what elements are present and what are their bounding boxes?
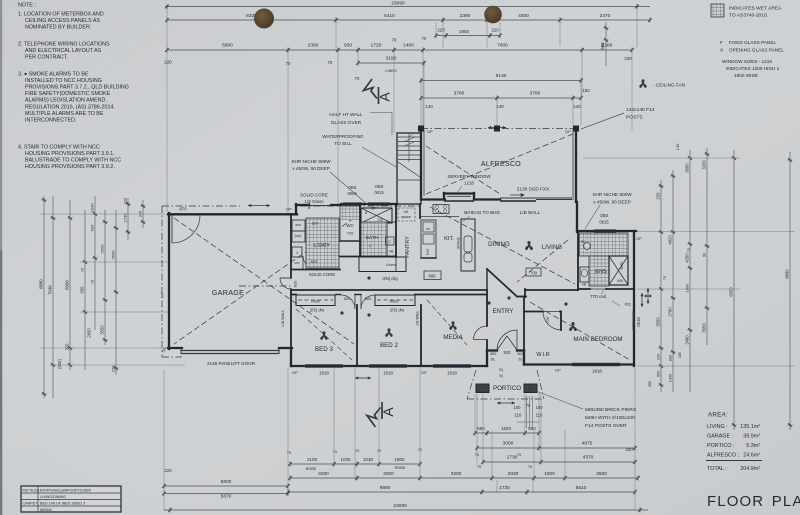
extension lines top: [166, 8, 168, 212]
svg-text:SHR: SHR: [620, 262, 624, 270]
svg-text:1800 WIDE: 1800 WIDE: [734, 73, 758, 78]
svg-text:39.9m²: 39.9m²: [743, 434, 760, 440]
bed diag dashes: [296, 309, 352, 360]
svg-text:220: 220: [625, 447, 633, 452]
svg-text:3500: 3500: [596, 471, 607, 477]
dim row 8320/5410/2390/4500/2470: [167, 19, 650, 21]
svg-text:24.6m²: 24.6m²: [743, 453, 760, 459]
svg-text:MEDIA: MEDIA: [40, 508, 52, 512]
svg-text:870: 870: [179, 207, 187, 212]
vanity: [387, 222, 396, 256]
svg-text:3550: 3550: [702, 323, 707, 333]
FG window: [612, 301, 620, 306]
svg-text:PROVISIONS PART 3.7.2., QLD BU: PROVISIONS PART 3.7.2., QLD BUILDING: [25, 85, 129, 91]
svg-text:CEILING ACCESS PANELS AS: CEILING ACCESS PANELS AS: [25, 18, 100, 24]
svg-text:6500: 6500: [65, 280, 70, 290]
svg-text:9980: 9980: [380, 485, 391, 491]
laundry-garage door 820: [290, 278, 292, 289]
svg-text:space: space: [401, 215, 411, 219]
svg-text:2/S| drs: 2/S| drs: [390, 308, 404, 313]
svg-text:4370: 4370: [583, 455, 594, 461]
svg-text:G: G: [388, 240, 391, 244]
svg-text:23090: 23090: [391, 0, 405, 6]
dim row 3200/3000/3200/2030/1500/3500: [290, 477, 638, 479]
svg-text:220: 220: [65, 343, 70, 351]
north wall laundry/wc/bath: [295, 204, 297, 214]
svg-text:DINING: DINING: [488, 241, 510, 248]
kitchen bench column: [421, 220, 436, 258]
svg-text:1900: 1900: [394, 457, 405, 462]
bed3/bed2 divider: [356, 305, 358, 366]
svg-text:350: 350: [648, 381, 652, 387]
svg-text:GARAGE: GARAGE: [212, 288, 245, 297]
svg-text:820: 820: [312, 221, 319, 226]
svg-text:ref: ref: [404, 210, 408, 214]
svg-text:2. TELEPHONE WIRING LOCATIONS: 2. TELEPHONE WIRING LOCATIONS: [18, 42, 110, 48]
svg-text:OBS: OBS: [600, 213, 609, 218]
svg-text:ENTRY: ENTRY: [493, 308, 514, 315]
left dimension column: [43, 196, 45, 398]
svg-text:3200: 3200: [702, 160, 707, 170]
svg-text:180: 180: [678, 352, 682, 358]
svg-text:WC: WC: [346, 223, 354, 228]
svg-text:MAIN BEDROOM: MAIN BEDROOM: [573, 336, 622, 343]
svg-text:8880: 8880: [785, 269, 790, 279]
svg-text:7040: 7040: [48, 285, 53, 295]
svg-text:3780: 3780: [454, 91, 465, 97]
svg-text:600: 600: [429, 274, 437, 279]
svg-text:DP: DP: [292, 370, 298, 375]
svg-text:CARPET: CARPET: [23, 502, 39, 506]
svg-text:OBS: OBS: [348, 185, 357, 190]
svg-text:70: 70: [333, 449, 338, 454]
svg-text:ALFRESCO :: ALFRESCO :: [707, 453, 739, 459]
svg-text:DP: DP: [286, 207, 292, 212]
svg-text:2950: 2950: [87, 328, 92, 338]
svg-text:830: 830: [668, 354, 673, 361]
svg-text:ROBE: ROBE: [306, 467, 317, 471]
svg-text:820: 820: [344, 296, 351, 301]
svg-text:70: 70: [286, 61, 291, 66]
svg-text:3000: 3000: [383, 471, 394, 477]
dim 3190 linen: [358, 62, 424, 64]
svg-text:L: L: [369, 244, 371, 248]
svg-text:2560: 2560: [100, 244, 105, 254]
svg-text:- CEILING FAN: - CEILING FAN: [653, 83, 685, 88]
bed2/media divider: [420, 305, 422, 366]
svg-text:1818: 1818: [383, 371, 393, 376]
svg-text:L/B WALL: L/B WALL: [281, 310, 285, 327]
svg-text:820: 820: [293, 280, 298, 287]
svg-text:2480: 2480: [685, 335, 690, 345]
svg-text:820: 820: [311, 259, 318, 264]
svg-text:5510: 5510: [576, 485, 587, 491]
svg-text:FLOOR PLAN: FLOOR PLAN: [707, 493, 800, 510]
bath floor hatch: [361, 222, 387, 256]
svg-text:DW: DW: [426, 248, 430, 254]
svg-text:BED 1/W.I.R./BED 2/BED 3: BED 1/W.I.R./BED 2/BED 3: [40, 502, 85, 506]
svg-text:70: 70: [418, 447, 423, 452]
kitchen bench north + cooktop: [421, 216, 459, 218]
garage walls: [168, 213, 170, 349]
svg-text:1. LOCATION OF METERBOX AND: 1. LOCATION OF METERBOX AND: [18, 12, 104, 18]
svg-text:3550: 3550: [656, 317, 661, 327]
svg-text:POSTS: POSTS: [626, 115, 643, 121]
svg-text:1950: 1950: [459, 29, 470, 34]
svg-text:70: 70: [475, 452, 480, 457]
svg-text:Robe: Robe: [390, 300, 399, 304]
svg-text:GLASS OVER: GLASS OVER: [331, 120, 362, 125]
legend wet area symbol: [711, 4, 724, 17]
svg-text:3000: 3000: [503, 441, 514, 447]
living south wall: [517, 296, 526, 298]
svg-text:KM TILES: KM TILES: [23, 489, 40, 493]
svg-text:3060: 3060: [685, 163, 690, 173]
entry front wall + door: [486, 350, 488, 366]
alfresco posts: [418, 126, 424, 132]
svg-text:5.3m²: 5.3m²: [746, 443, 760, 449]
svg-text:140: 140: [425, 104, 433, 109]
svg-text:70: 70: [355, 448, 360, 453]
svg-text:PORTICO :: PORTICO :: [707, 443, 734, 449]
svg-text:HALF HT WALL: HALF HT WALL: [329, 112, 363, 117]
svg-text:220: 220: [491, 28, 499, 33]
svg-text:2030: 2030: [508, 471, 519, 477]
svg-text:900: 900: [617, 279, 623, 283]
svg-text:TO SILL: TO SILL: [334, 141, 352, 146]
dim row 5800/2380/930/1720/1400/7600/2380: [167, 49, 632, 51]
svg-text:2/S| drs: 2/S| drs: [310, 308, 324, 313]
ens shower: [609, 256, 628, 285]
svg-text:LIVING/DINING: LIVING/DINING: [40, 495, 66, 499]
svg-text:3190: 3190: [386, 56, 397, 62]
svg-text:SHR NICHE 900W: SHR NICHE 900W: [592, 192, 632, 197]
bed3 robe: [296, 295, 335, 306]
svg-text:5800: 5800: [221, 479, 232, 485]
svg-text:A: A: [380, 407, 396, 417]
svg-text:820: 820: [365, 296, 372, 301]
interior: garage east wall: [290, 214, 292, 278]
svg-text:NOMINATED BY BUILDER.: NOMINATED BY BUILDER.: [25, 25, 91, 31]
svg-text:140x140 F14: 140x140 F14: [626, 107, 655, 113]
svg-text:220: 220: [164, 468, 172, 473]
svg-text:3200: 3200: [318, 471, 329, 477]
svg-text:3780: 3780: [530, 91, 541, 97]
svg-text:Linen: Linen: [386, 262, 396, 267]
svg-text:PORTICO: PORTICO: [493, 385, 521, 392]
svg-text:0615: 0615: [599, 220, 609, 225]
svg-text:2560: 2560: [111, 250, 116, 260]
svg-text:ENTRY/HALLWAYS/KITCHEN/: ENTRY/HALLWAYS/KITCHEN/: [40, 489, 92, 493]
laundry wet floor hatch: [306, 218, 339, 268]
svg-text:AREA:: AREA:: [708, 412, 728, 419]
svg-text:1820: 1820: [501, 426, 512, 431]
magnet circle left: [254, 9, 274, 29]
svg-text:NOTE :: NOTE :: [18, 3, 36, 9]
sliding door 2138 SGD: [500, 197, 572, 199]
wc: [341, 206, 359, 220]
svg-text:4820: 4820: [668, 235, 673, 245]
svg-text:70: 70: [392, 38, 397, 43]
svg-text:3550: 3550: [100, 325, 105, 335]
legend ceiling fan: [640, 80, 646, 87]
svg-text:B|: B|: [499, 374, 502, 378]
svg-text:L/B WALL: L/B WALL: [416, 310, 420, 325]
svg-text:70: 70: [477, 464, 482, 469]
svg-text:FG: FG: [625, 302, 631, 307]
600 box: [424, 271, 441, 280]
700 box label: [526, 268, 541, 276]
east outer wall: [633, 231, 635, 366]
svg-text:930: 930: [344, 43, 352, 49]
svg-text:940H WITH 2/100x100: 940H WITH 2/100x100: [585, 415, 635, 421]
svg-text:BED 3: BED 3: [315, 346, 333, 353]
wir walls: [523, 297, 525, 364]
section marker A top: [364, 79, 379, 104]
right wing ens walls: [576, 202, 578, 232]
svg-text:1720: 1720: [371, 43, 382, 49]
svg-text:950: 950: [80, 286, 85, 294]
svg-text:70: 70: [287, 450, 292, 455]
svg-text:150: 150: [582, 88, 590, 93]
svg-text:B/PANE: B/PANE: [457, 237, 461, 248]
svg-text:135.1m²: 135.1m²: [740, 424, 760, 430]
magnet circle right: [484, 6, 502, 24]
svg-text:2470: 2470: [600, 13, 611, 19]
bed3 door 820: [335, 294, 341, 296]
svg-text:5870: 5870: [221, 494, 232, 500]
svg-text:SERVERY WINDOW: SERVERY WINDOW: [447, 174, 491, 179]
svg-text:(tub): (tub): [295, 234, 302, 238]
laundry south wall + solid core: [291, 269, 340, 271]
svg-text:500: 500: [90, 224, 95, 231]
svg-text:1500: 1500: [544, 471, 555, 477]
south wall main bedroom/wir: [524, 363, 634, 365]
svg-text:770 csd: 770 csd: [590, 294, 607, 299]
svg-text:FIRE SAFETY(DOMESTIC SMOKE: FIRE SAFETY(DOMESTIC SMOKE: [25, 91, 111, 97]
ens basin: [584, 243, 591, 250]
svg-text:ov: ov: [426, 227, 430, 231]
svg-text:590x350 BRICK PIERS: 590x350 BRICK PIERS: [585, 407, 637, 413]
svg-text:BATH: BATH: [366, 235, 379, 241]
svg-text:SL: SL: [518, 357, 524, 362]
svg-text:B|: B|: [499, 368, 502, 372]
svg-text:2148 PANELIFT DOOR: 2148 PANELIFT DOOR: [207, 361, 256, 366]
portico: [476, 384, 489, 393]
bed2 robe: [375, 295, 415, 306]
dim row 5800: [164, 485, 288, 487]
svg-text:x 450W, 90 DEEP: x 450W, 90 DEEP: [593, 200, 631, 205]
svg-text:70: 70: [377, 448, 382, 453]
svg-text:0618: 0618: [636, 317, 641, 327]
hall south wall to entry: [291, 289, 487, 291]
svg-text:7600: 7600: [497, 43, 508, 49]
svg-text:PANTRY: PANTRY: [405, 236, 411, 258]
svg-text:REGULATION 2016, (AS) 3786-201: REGULATION 2016, (AS) 3786-2014.: [25, 104, 115, 110]
svg-text:4. STAIR TO COMPLY WITH NCC: 4. STAIR TO COMPLY WITH NCC: [18, 145, 100, 151]
bed2 door 820: [355, 294, 361, 296]
dim row 23090 bottom: [164, 509, 648, 511]
svg-text:HOUSING PROVISIONS PART 3.9.2.: HOUSING PROVISIONS PART 3.9.2.: [25, 164, 115, 170]
svg-text:8880: 8880: [39, 279, 44, 289]
svg-text:ALARMS) LEGISLATION AMEND.: ALARMS) LEGISLATION AMEND.: [25, 98, 107, 104]
svg-text:SOLID CORE: SOLID CORE: [309, 272, 336, 277]
svg-text:720: 720: [347, 231, 354, 236]
dim row 8130: [421, 80, 581, 82]
svg-text:5410: 5410: [384, 13, 395, 19]
bedroom windows 1818 x3: [305, 364, 343, 366]
svg-text:1818: 1818: [319, 371, 329, 376]
dim right-top 580/240: [605, 22, 607, 66]
svg-text:TO AS3740-2010.: TO AS3740-2010.: [729, 13, 768, 19]
svg-text:4875: 4875: [582, 441, 593, 447]
svg-text:220: 220: [656, 192, 661, 200]
svg-text:70: 70: [328, 60, 333, 65]
svg-text:F: F: [720, 40, 723, 45]
svg-text:x 450W, 90 DEEP: x 450W, 90 DEEP: [292, 166, 330, 171]
svg-text:WATERPROOFING: WATERPROOFING: [322, 134, 364, 139]
svg-text:L/B WALL: L/B WALL: [520, 210, 541, 215]
svg-text:1218: 1218: [464, 181, 474, 186]
garage panelift door: [181, 350, 279, 352]
svg-text:720: 720: [545, 316, 550, 323]
svg-text:(600): (600): [57, 359, 62, 369]
svg-text:2100: 2100: [307, 457, 318, 462]
svg-text:70: 70: [355, 76, 360, 81]
svg-text:W.I.R: W.I.R: [536, 352, 549, 358]
svg-text:1400: 1400: [403, 43, 414, 49]
svg-text:8130: 8130: [496, 73, 507, 79]
robe wall: [291, 294, 296, 296]
media door: [474, 326, 488, 340]
svg-text:920: 920: [504, 350, 512, 355]
dim row 5870/9980/1730/5510: [164, 493, 288, 495]
svg-text:110: 110: [515, 413, 522, 418]
svg-text:ROBE: ROBE: [395, 466, 406, 470]
svg-text:INSTALLED TO NCC HOUSING: INSTALLED TO NCC HOUSING: [25, 78, 102, 84]
svg-text:2390: 2390: [460, 13, 471, 19]
bath south wall: [340, 256, 396, 258]
svg-text:204.9m²: 204.9m²: [740, 466, 760, 472]
svg-text:0615: 0615: [374, 190, 384, 195]
svg-text:2380: 2380: [308, 43, 319, 49]
svg-text:3/S| drg: 3/S| drg: [382, 276, 398, 281]
bottom extension lines: [163, 370, 165, 511]
svg-text:DP: DP: [421, 370, 427, 375]
laundry fixtures wm/tub: [292, 220, 305, 231]
svg-text:1730: 1730: [123, 213, 128, 223]
svg-text:2138 SGD FXX: 2138 SGD FXX: [517, 187, 550, 192]
svg-text:ALFRESCO: ALFRESCO: [481, 161, 521, 168]
eave double arrow top: [248, 205, 270, 207]
svg-text:240: 240: [624, 56, 632, 61]
svg-text:MULTIPLE ALARMS ARE TO BE: MULTIPLE ALARMS ARE TO BE: [25, 111, 104, 117]
svg-text:140: 140: [675, 143, 680, 150]
svg-text:SOLID CORE: SOLID CORE: [300, 193, 328, 198]
alfresco double arrow: [488, 127, 506, 129]
left extension lines: [40, 213, 165, 215]
alfresco diagonals: [426, 134, 573, 194]
kitchen island: [461, 219, 475, 271]
right extension lines: [637, 231, 795, 233]
svg-text:4200: 4200: [685, 253, 690, 263]
svg-text:1030: 1030: [340, 457, 351, 462]
svg-text:580: 580: [600, 42, 605, 50]
house wall under alfresco + servery: [421, 198, 445, 200]
photo left edge shadow: [0, 0, 2, 515]
right dimension column: [660, 180, 662, 392]
svg-text:70: 70: [663, 276, 667, 280]
svg-text:RC: RC: [581, 240, 586, 244]
svg-text:A: A: [377, 92, 393, 102]
svg-text:BALUSTRADE TO COMPLY WITH NCC: BALUSTRADE TO COMPLY WITH NCC: [25, 158, 121, 164]
stair shaft: [397, 133, 421, 204]
ens wc: [580, 267, 589, 282]
svg-text:TOTAL :: TOTAL :: [707, 466, 727, 472]
finishes table bottom-left: [21, 486, 121, 512]
svg-text:LINEN: LINEN: [385, 69, 396, 73]
svg-text:70: 70: [91, 280, 95, 284]
entry double door: [497, 336, 507, 350]
svg-text:220: 220: [124, 198, 128, 204]
svg-text:4500: 4500: [518, 13, 529, 19]
media north wall: [415, 294, 487, 296]
entry diagonal wall: [487, 269, 517, 297]
svg-text:220: 220: [111, 365, 116, 372]
svg-text:5800: 5800: [222, 43, 233, 49]
svg-text:1818: 1818: [592, 369, 602, 374]
svg-text:100: 100: [536, 405, 544, 410]
svg-text:F14 POSTS OVER: F14 POSTS OVER: [585, 423, 627, 429]
svg-text:100: 100: [514, 405, 522, 410]
svg-text:1640: 1640: [90, 203, 95, 213]
svg-text:1818: 1818: [447, 371, 457, 376]
svg-text:3200: 3200: [451, 471, 462, 477]
svg-text:220: 220: [437, 28, 445, 33]
ens: [579, 233, 628, 256]
svg-text:140: 140: [496, 104, 504, 109]
svg-text:DP: DP: [427, 130, 433, 134]
hall south labels: [367, 276, 370, 279]
svg-text:23090: 23090: [393, 503, 407, 509]
linen: [359, 257, 406, 272]
svg-text:INTERCONNECTED.: INTERCONNECTED.: [25, 117, 76, 123]
svg-text:BED 2: BED 2: [380, 342, 398, 349]
svg-text:VB: VB: [389, 250, 394, 254]
svg-text:HOUSING PROVISIONS PART 3.9.1.: HOUSING PROVISIONS PART 3.9.1.: [25, 151, 115, 157]
svg-text:SL: SL: [491, 357, 497, 362]
dim row 3780/3780/150: [421, 97, 581, 99]
dim row 2100/1030/1030/1900 left: [290, 463, 420, 465]
svg-text:INDICATES WET AREA: INDICATES WET AREA: [729, 6, 782, 12]
svg-text:70: 70: [422, 36, 427, 41]
svg-text:140: 140: [573, 104, 581, 109]
svg-text:1: 1: [296, 251, 298, 255]
svg-text:DP: DP: [160, 292, 165, 298]
living diagonals: [430, 207, 575, 284]
ens south wall + 770csd: [578, 288, 590, 290]
dim row 3000/4875: [477, 447, 635, 449]
svg-text:70: 70: [517, 452, 522, 457]
south wall bedrooms: [291, 365, 487, 367]
section marker A bottom: [367, 402, 382, 427]
svg-text:70: 70: [687, 248, 691, 252]
laundry door arcs: [308, 219, 310, 233]
svg-text:700: 700: [530, 270, 538, 275]
svg-text:110: 110: [536, 413, 543, 418]
svg-text:90: 90: [703, 253, 707, 257]
svg-text:1300: 1300: [668, 373, 673, 382]
